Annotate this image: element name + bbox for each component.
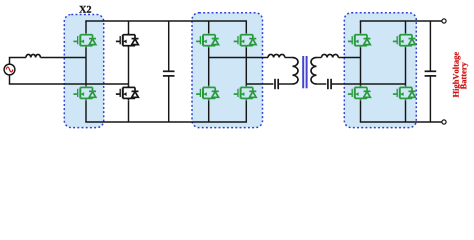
mosfet S2 (slow leg low) — [116, 86, 139, 100]
resonant inductor Lr1 — [268, 54, 285, 57]
wire: leg A1 drain rail stub — [85, 21, 87, 33]
wire: capacitor to leg C2 — [331, 83, 405, 85]
terminal: battery positive — [442, 19, 446, 23]
wire: primary bridge top output — [209, 57, 268, 59]
wire: leg B1 drain rail stub — [208, 21, 210, 33]
wire: leg A2 midpoint vertical — [128, 47, 130, 86]
dc-link capacitor Cdc — [163, 21, 175, 122]
dashed module box X2 (totem-pole fast leg) — [64, 15, 103, 128]
resonant capacitor Cr1 — [275, 79, 278, 89]
wire: leg B2 source rail stub — [245, 100, 247, 122]
wire: leg C2 drain rail stub — [405, 21, 407, 33]
mosfet Q7 (secondary bridge) — [348, 33, 371, 47]
wire: ac return to leg A2 — [9, 83, 129, 85]
wire: leg C1 drain rail stub — [360, 21, 362, 33]
transformer T1 core — [303, 56, 306, 88]
wire: capacitor to primary winding — [278, 83, 292, 85]
label: High Voltage Battery — [453, 52, 468, 97]
terminal: battery negative — [442, 120, 446, 124]
wire: source bottom lead — [9, 75, 11, 84]
wire: leg B2 midpoint vertical — [245, 47, 247, 86]
wire: leg B1 midpoint vertical — [208, 47, 210, 86]
mosfet Q9 (secondary bridge) — [393, 33, 416, 47]
wire: secondary winding to inductor — [317, 57, 322, 59]
dashed module box: secondary full-bridge — [344, 13, 416, 128]
wire: input top to boost inductor — [9, 57, 26, 59]
mosfet Q2 (fast leg low) — [73, 86, 96, 100]
wire: primary bridge bottom output — [246, 83, 273, 85]
wire: leg C1 midpoint vertical — [360, 47, 362, 86]
boost inductor L1 — [26, 54, 40, 57]
mosfet Q4 (primary bridge) — [196, 86, 219, 100]
resonant capacitor Cr2 — [328, 79, 331, 89]
wire: dc bus negative rail — [85, 121, 247, 123]
wire: leg C2 midpoint vertical — [405, 47, 407, 86]
wire: dc bus positive rail — [85, 20, 247, 22]
mosfet Q6 (primary bridge) — [234, 86, 257, 100]
mosfet Q3 (primary bridge) — [196, 33, 219, 47]
wire: leg B2 drain rail stub — [245, 21, 247, 33]
wire: leg A1 source rail stub — [85, 100, 87, 122]
transformer T1 secondary winding — [311, 58, 317, 85]
wire: inductor to leg A1 midpoint — [40, 57, 86, 59]
wire: leg A2 drain rail stub — [128, 21, 130, 33]
wire: inductor to leg C1 — [338, 57, 360, 59]
wire: leg A1 midpoint vertical — [85, 47, 87, 86]
wire: secondary winding to capacitor — [317, 83, 327, 85]
wire: leg C1 source rail stub — [360, 100, 362, 122]
output capacitor Co — [425, 21, 437, 122]
mosfet S1 (slow leg high) — [116, 33, 139, 47]
resonant inductor Lr2 — [322, 54, 339, 57]
wire: output negative rail — [360, 121, 442, 123]
transformer T1 primary winding — [293, 58, 299, 85]
mosfet Q5 (primary bridge) — [234, 33, 257, 47]
mosfet Q10 (secondary bridge) — [393, 86, 416, 100]
wire: leg C2 source rail stub — [405, 100, 407, 122]
ac source V1 — [4, 64, 15, 75]
wire: leg B1 source rail stub — [208, 100, 210, 122]
mosfet Q1 (fast leg high) — [73, 33, 96, 47]
wire: output positive rail — [360, 20, 442, 22]
dashed module box: primary full-bridge — [192, 13, 263, 128]
mosfet Q8 (secondary bridge) — [348, 86, 371, 100]
wire: leg A2 source rail stub — [128, 100, 130, 122]
wire: inductor to primary winding — [285, 57, 293, 59]
wire: source top lead — [9, 58, 11, 65]
label X2 — [79, 6, 91, 13]
